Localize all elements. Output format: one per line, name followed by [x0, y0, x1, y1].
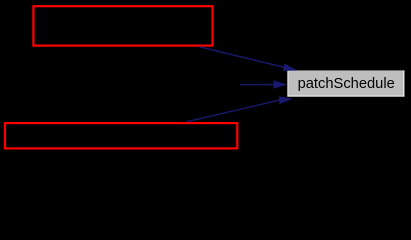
edge arrow 2: horizontal middle edge to patchSchedule	[240, 84, 275, 86]
node border bottom	[287, 95, 404, 97]
node patchSchedule (grey box)	[287, 70, 404, 96]
arrowhead 2	[274, 80, 288, 88]
node border left	[287, 70, 289, 96]
svg-text:patchSchedule: patchSchedule	[298, 76, 395, 92]
edge arrow 1: from box1 to patchSchedule	[200, 47, 284, 67]
arrowhead 1	[283, 63, 297, 71]
arrowhead 3	[279, 96, 293, 104]
node border right	[403, 70, 405, 96]
caller node box 2 (truncated, red border) bottom-left	[5, 123, 237, 148]
edge arrow 3: from box2 to patchSchedule	[187, 100, 280, 122]
caller node box 1 (truncated, red border) top-left	[33, 6, 212, 45]
